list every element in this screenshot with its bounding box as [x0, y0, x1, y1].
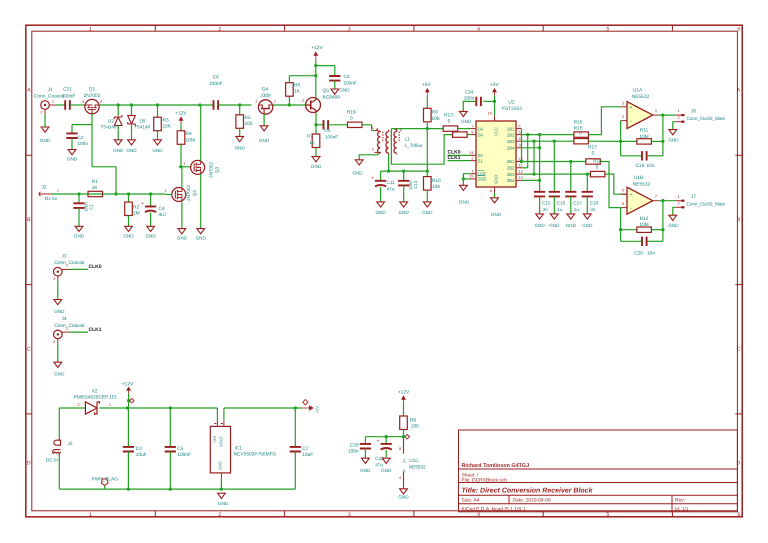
ground (C13) [399, 202, 410, 215]
resistor R2 1M [125, 194, 140, 226]
wire J1 to C21 [56, 104, 65, 106]
svg-text:2: 2 [255, 99, 257, 104]
svg-text:3: 3 [622, 100, 624, 105]
svg-text:GND: GND [398, 495, 409, 500]
resistor R3 10K [154, 105, 172, 140]
svg-text:A: A [737, 88, 741, 94]
svg-text:100n: 100n [464, 96, 475, 101]
svg-text:R15: R15 [574, 120, 583, 126]
wire C18 drop [586, 174, 588, 192]
ground (IC1) [218, 493, 229, 506]
svg-text:R12: R12 [640, 216, 649, 222]
svg-text:R1: R1 [92, 179, 98, 185]
wire J1 shield to ground [44, 114, 46, 127]
capacitor C16 1u [549, 192, 566, 214]
power +12V (supply) [122, 381, 134, 407]
svg-text:C17: C17 [573, 201, 582, 206]
ground (J1) [40, 127, 51, 143]
wire U1A output [658, 113, 676, 116]
ground (C4) [145, 226, 156, 238]
wire U1C V- to ground [403, 487, 405, 489]
svg-text:R2: R2 [133, 205, 139, 211]
svg-text:1u: 1u [574, 207, 580, 212]
svg-text:GND: GND [534, 223, 545, 228]
svg-text:2: 2 [302, 98, 304, 103]
svg-text:PWR_FLAG: PWR_FLAG [92, 477, 119, 483]
ground (C34) [459, 111, 472, 124]
svg-text:GND: GND [126, 148, 137, 153]
svg-text:4u7: 4u7 [159, 212, 167, 218]
svg-text:C19: C19 [636, 163, 645, 169]
svg-text:0: 0 [448, 119, 451, 125]
svg-text:100nF: 100nF [177, 452, 191, 458]
capacitor C2 100n [66, 125, 88, 150]
svg-text:C30: C30 [350, 442, 359, 448]
svg-text:TS4148: TS4148 [134, 125, 151, 130]
ground (C1) [74, 226, 85, 238]
IC U2 FST3253 [469, 99, 523, 193]
svg-text:J1: J1 [47, 87, 52, 93]
svg-text:6: 6 [519, 123, 521, 128]
svg-text:C16: C16 [557, 201, 566, 206]
svg-text:5: 5 [606, 26, 609, 32]
svg-text:C: C [27, 346, 31, 352]
svg-text:1: 1 [89, 512, 92, 518]
svg-text:CLK1: CLK1 [89, 327, 102, 333]
ground (C2) [67, 150, 78, 162]
transistor Q2 2N7002 [164, 185, 197, 202]
resistor R8 100 [400, 403, 419, 437]
wire bus D (2B3/R18) [522, 172, 591, 175]
svg-text:1B1: 1B1 [507, 126, 515, 131]
wire Q3 source to ground [200, 174, 202, 229]
capacitor C34 100n [463, 89, 481, 111]
wire bus C (2B1/R17) [520, 160, 586, 163]
wire J2 rail [51, 192, 166, 195]
ground (C17) [566, 214, 577, 228]
capacitor C15 3n [534, 192, 551, 214]
svg-text:100nF: 100nF [344, 81, 357, 86]
ground (L1) [352, 160, 363, 176]
svg-text:10K: 10K [163, 124, 172, 130]
label CLK1 (S1) [448, 155, 471, 161]
svg-text:100nF: 100nF [62, 94, 76, 100]
svg-text:J309: J309 [260, 93, 271, 99]
svg-text:2OE: 2OE [478, 177, 487, 182]
ground (C12) [381, 458, 392, 473]
svg-text:C20: C20 [634, 250, 643, 256]
svg-text:+5V: +5V [315, 406, 320, 414]
ground (C8) [331, 88, 350, 95]
wire C21 to Q1 [70, 104, 85, 106]
svg-text:C: C [737, 346, 741, 352]
capacitor C9 100nF [324, 120, 348, 139]
svg-text:1: 1 [274, 99, 276, 104]
wire C16 drop [553, 141, 555, 192]
label CLK1 [70, 327, 102, 333]
svg-text:47u: 47u [375, 462, 383, 467]
wire 1B4 stub [522, 146, 542, 149]
resistor R7 1K [307, 134, 320, 157]
wire Q4 gate to ground [263, 114, 265, 126]
svg-text:15: 15 [469, 174, 473, 179]
wire J7 pin2 to ground [673, 207, 676, 215]
svg-text:+12V: +12V [175, 111, 187, 117]
svg-text:GND: GND [422, 210, 433, 215]
svg-text:3n: 3n [590, 207, 596, 212]
svg-text:C9: C9 [324, 128, 330, 133]
svg-text:BC848A: BC848A [323, 95, 342, 101]
svg-text:1A: 1A [478, 126, 483, 131]
capacitor C21 100nF [62, 87, 76, 110]
svg-text:6: 6 [622, 201, 624, 206]
capacitor C8 100nF [329, 66, 357, 89]
svg-text:VIN: VIN [212, 436, 217, 443]
capacitor C11 47u [371, 171, 395, 202]
wire Q2 source to ground [181, 201, 183, 229]
transistor Q1 2N7002 [82, 87, 102, 114]
svg-text:X2: X2 [91, 388, 97, 394]
svg-text:+: + [371, 175, 374, 181]
svg-text:R5: R5 [245, 115, 251, 121]
svg-text:1: 1 [183, 161, 185, 166]
svg-text:10K: 10K [432, 116, 441, 122]
svg-text:2: 2 [622, 114, 624, 119]
svg-text:S1: S1 [478, 158, 484, 163]
svg-text:2: 2 [53, 339, 55, 344]
svg-text:R3: R3 [163, 118, 169, 124]
svg-text:1: 1 [678, 194, 680, 199]
svg-text:V+: V+ [402, 457, 406, 463]
wire C17 drop [570, 162, 572, 192]
capacitor C4 4u7 [141, 194, 167, 226]
power +5V (supply out) [302, 400, 320, 414]
svg-text:GND: GND [113, 148, 124, 153]
svg-text:File: DCRXBlock.sch: File: DCRXBlock.sch [462, 478, 508, 484]
svg-text:Size: A4: Size: A4 [462, 498, 480, 504]
wire +5V to VCC and C34 [483, 96, 496, 116]
op-amp U1A NE5532 [621, 87, 659, 128]
svg-text:2: 2 [40, 110, 42, 115]
svg-text:4: 4 [477, 26, 480, 32]
svg-text:+12V: +12V [398, 390, 410, 396]
transformer L1 L_Trifilar [372, 125, 423, 154]
svg-text:2: 2 [678, 115, 680, 120]
svg-text:GND: GND [311, 164, 322, 169]
svg-text:NE5532: NE5532 [633, 181, 651, 187]
wire 1B3-2B3 link [533, 141, 535, 174]
svg-text:L_Trifilar: L_Trifilar [405, 143, 423, 148]
svg-text:GND: GND [352, 170, 363, 175]
wire R18 to U1B + [605, 174, 627, 194]
svg-text:R9: R9 [432, 110, 438, 116]
svg-text:GND: GND [339, 88, 350, 93]
capacitor C5 100nF [165, 408, 191, 489]
svg-text:B: B [737, 217, 741, 223]
svg-text:C3: C3 [136, 446, 142, 452]
wire 1B2-2B2 link [522, 135, 528, 168]
svg-text:GND: GND [459, 200, 470, 205]
svg-text:1: 1 [89, 26, 92, 32]
svg-text:2B2: 2B2 [507, 166, 515, 171]
svg-text:3: 3 [348, 512, 351, 518]
svg-text:1K: 1K [294, 89, 301, 95]
svg-text:GND: GND [375, 210, 386, 215]
svg-text:Q4: Q4 [262, 87, 269, 93]
power +12V (R4) [175, 111, 187, 125]
capacitor C20 10n [621, 237, 663, 257]
resistor R14 0 [453, 132, 471, 137]
wire R15 to U1A + [588, 107, 620, 135]
connector J2 Rx_5v [38, 185, 59, 202]
resistor R1 1K [88, 179, 103, 197]
resistor R17 0 [586, 145, 601, 165]
svg-text:Conn_Coaxial: Conn_Coaxial [54, 323, 84, 329]
wire U2 GND pin [494, 193, 496, 198]
svg-text:10uF: 10uF [302, 452, 313, 458]
svg-text:GND: GND [123, 234, 134, 239]
svg-text:6: 6 [738, 26, 741, 32]
ground (Q2) [177, 229, 188, 241]
connector J6 Conn_01x02_Male [676, 108, 726, 123]
svg-text:R13: R13 [444, 113, 453, 119]
resistor R15 0 [574, 120, 589, 138]
svg-text:2B3: 2B3 [507, 172, 515, 177]
svg-text:10M: 10M [639, 222, 648, 228]
svg-text:GND: GND [360, 468, 371, 473]
wire L1 secondary bottom to R14 [391, 129, 452, 165]
svg-text:7: 7 [655, 193, 657, 198]
svg-text:U1C: U1C [409, 458, 419, 463]
power +5V (U2 VCC) [490, 82, 499, 96]
svg-text:D2: D2 [108, 119, 114, 124]
wire U1B feedback (-) [619, 208, 622, 242]
svg-text:7: 7 [471, 123, 473, 128]
svg-text:TS4148: TS4148 [100, 125, 117, 130]
wire Q1 gate to bias node [72, 114, 116, 194]
svg-text:Title: Direct Conversion Recei: Title: Direct Conversion Receiver Block [462, 487, 594, 495]
ground (D2) [113, 140, 124, 153]
svg-text:+12V: +12V [122, 381, 134, 387]
svg-text:Date: 2020-09-09: Date: 2020-09-09 [513, 498, 551, 504]
ground (C11) [375, 202, 386, 215]
svg-text:1: 1 [57, 188, 59, 193]
op-amp U1C NE5532 power pins [399, 434, 426, 486]
power +12V (Q5 collector) [311, 45, 323, 59]
svg-text:2B1: 2B1 [507, 159, 515, 164]
svg-text:NE5532: NE5532 [409, 465, 426, 470]
resistor R4 10M [177, 124, 195, 167]
svg-text:Q2: Q2 [192, 189, 197, 196]
transistor Q3 2N7002 [183, 160, 219, 178]
svg-text:0: 0 [350, 116, 353, 122]
wire J6 pin2 to ground [673, 122, 676, 130]
wire U1B output [658, 199, 676, 202]
wire L1 center tap [387, 155, 390, 173]
capacitor C7 10uF [290, 408, 314, 489]
wire J5 to rails [58, 408, 60, 489]
wire C6 to Q4 [219, 103, 252, 106]
resistor R6 1K [286, 76, 301, 105]
label CLK0 (S0) [448, 149, 471, 155]
svg-text:C21: C21 [63, 87, 72, 93]
svg-text:3n: 3n [543, 207, 549, 212]
capacitor C18 3n [582, 192, 599, 214]
svg-text:DC In: DC In [46, 458, 58, 463]
svg-text:GND: GND [196, 236, 207, 241]
svg-text:2: 2 [77, 402, 79, 407]
svg-text:9: 9 [471, 129, 473, 134]
svg-text:+: + [629, 105, 632, 111]
svg-text:-: - [630, 119, 632, 125]
ground (J3) [54, 300, 65, 314]
label CLK0 [70, 264, 102, 270]
svg-text:VOUT: VOUT [219, 435, 224, 447]
svg-text:C13: C13 [413, 180, 418, 189]
svg-text:10M: 10M [639, 134, 648, 140]
svg-text:C7: C7 [302, 446, 308, 452]
node Q3 gate / R4 / Q2 drain [179, 165, 191, 168]
svg-text:11: 11 [519, 163, 523, 168]
wire Q5 emitter node [314, 112, 323, 134]
resistor R13 0 [443, 113, 470, 132]
svg-text:2: 2 [678, 201, 680, 206]
resistor R19 0 [347, 109, 375, 130]
svg-text:GND: GND [235, 146, 246, 151]
svg-text:1: 1 [655, 108, 657, 113]
connector J3 Conn_Coaxial [53, 254, 84, 282]
wire bus B (1B3/R16) [522, 140, 574, 143]
svg-text:R19: R19 [347, 109, 356, 115]
svg-text:FST3253: FST3253 [502, 106, 522, 112]
svg-text:CLK0: CLK0 [89, 264, 102, 270]
svg-text:GND: GND [40, 138, 51, 143]
svg-text:10n: 10n [647, 250, 655, 256]
capacitor C17 1u [565, 192, 582, 214]
svg-text:2N7002: 2N7002 [84, 93, 101, 99]
svg-text:GND: GND [74, 234, 85, 239]
svg-text:R10: R10 [432, 178, 441, 184]
connector J7 Conn_01x02_Male [676, 194, 726, 209]
ground (C30) [360, 458, 371, 473]
wire Q4 to Q5 base [273, 103, 307, 106]
wire bus A (1B2/R15) [522, 133, 574, 136]
svg-text:1B3: 1B3 [507, 139, 515, 144]
svg-text:+5V: +5V [422, 82, 431, 88]
resistor R11 10M [588, 128, 663, 144]
svg-text:1: 1 [109, 402, 111, 407]
power +5V (R9) [422, 82, 431, 96]
svg-text:100: 100 [245, 121, 253, 127]
svg-text:3: 3 [519, 143, 521, 148]
wire VOUT rail [224, 406, 302, 409]
svg-text:GND: GND [549, 223, 560, 228]
svg-text:GND: GND [152, 148, 163, 153]
wire L1 primary to ground [359, 152, 378, 159]
svg-text:100nF: 100nF [209, 81, 223, 87]
svg-text:R17: R17 [588, 145, 597, 151]
svg-text:8: 8 [399, 446, 401, 451]
svg-text:GND: GND [259, 138, 270, 143]
wire 2B4 stub [522, 179, 542, 182]
power +12V (U1C) [398, 390, 410, 404]
connector J5 barrel jack [46, 438, 73, 462]
ground (U1C) [398, 489, 409, 500]
wire diode to VIN [99, 406, 217, 409]
svg-text:GND: GND [54, 372, 65, 377]
resistor R5 100 [236, 105, 253, 136]
svg-text:2: 2 [471, 155, 473, 160]
wire J4 shield [57, 343, 59, 362]
svg-text:U1B: U1B [634, 175, 643, 181]
svg-text:GND: GND [177, 236, 188, 241]
svg-text:GND: GND [566, 223, 577, 228]
svg-text:R8: R8 [410, 417, 416, 423]
svg-text:13: 13 [519, 175, 523, 180]
power flag PWR_FLAG [92, 477, 119, 489]
svg-text:GND: GND [494, 175, 499, 184]
svg-text:10M: 10M [186, 137, 195, 143]
svg-text:5: 5 [606, 512, 609, 518]
svg-text:6: 6 [738, 512, 741, 518]
connector J1 Conn_Coaxial [34, 87, 64, 114]
transistor Q4 J309 [255, 87, 276, 115]
svg-text:J6: J6 [691, 109, 696, 115]
capacitor C19 10n [621, 151, 663, 169]
wire bias node rail [381, 170, 428, 172]
capacitor C13 100n [398, 169, 418, 201]
wire U1A feedback (-) [619, 121, 622, 156]
svg-text:+12V: +12V [311, 45, 323, 51]
svg-text:2: 2 [53, 276, 55, 281]
resistor R10 10K [424, 171, 442, 202]
svg-text:GND: GND [218, 461, 223, 470]
wire R9 to bias node [426, 129, 429, 173]
diode X2 PMEG4020CEP.115 [74, 388, 117, 414]
svg-text:C6: C6 [213, 75, 219, 81]
svg-text:C1: C1 [89, 204, 94, 210]
resistor R18 0 [590, 159, 605, 177]
wire Q2 drain [181, 167, 183, 188]
svg-text:Conn_Coaxial: Conn_Coaxial [54, 260, 84, 266]
svg-text:KiCad E.D.A. kicad (5.1.10)-1: KiCad E.D.A. kicad (5.1.10)-1 [462, 506, 526, 512]
wire U1B feedback vertical [661, 201, 664, 242]
connector J4 Conn_Coaxial [53, 316, 84, 344]
svg-text:1: 1 [372, 125, 374, 130]
svg-text:2A: 2A [478, 132, 483, 137]
wire L1 secondary top to bus [391, 127, 443, 130]
svg-text:1u: 1u [557, 207, 563, 212]
svg-text:GND: GND [582, 223, 593, 228]
svg-text:GND: GND [668, 138, 679, 143]
ground (C16) [549, 214, 560, 228]
wire C15 drop [539, 135, 541, 192]
svg-text:Rev:: Rev: [675, 498, 685, 504]
svg-text:D9: D9 [140, 119, 146, 124]
ground (R7) [311, 157, 322, 169]
svg-text:4: 4 [477, 512, 480, 518]
svg-text:C15: C15 [542, 201, 551, 206]
svg-text:PMEG4020CEP.115: PMEG4020CEP.115 [74, 394, 117, 400]
wire 1B1-2B1 link [521, 129, 523, 162]
svg-text:C18: C18 [590, 201, 599, 206]
svg-text:C2: C2 [78, 135, 84, 140]
ground (R5) [235, 136, 246, 150]
wire bottom rail [59, 487, 295, 490]
ground (R10) [422, 202, 433, 215]
wire top rail left [59, 407, 85, 409]
svg-text:GND: GND [145, 234, 156, 239]
